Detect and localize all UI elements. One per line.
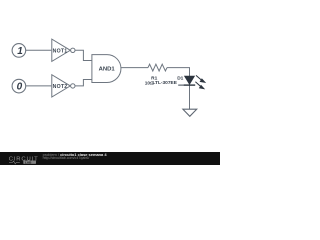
svg-text:http://circuitlab.com/c47qab6/: http://circuitlab.com/c47qab6/ <box>43 156 90 160</box>
svg-text:LAB: LAB <box>25 160 32 164</box>
svg-text:AND1: AND1 <box>99 67 116 73</box>
svg-text:0: 0 <box>17 82 23 93</box>
svg-text:1: 1 <box>17 46 23 57</box>
svg-text:D1: D1 <box>177 76 183 82</box>
svg-text:NOT2: NOT2 <box>53 84 68 90</box>
svg-text:NOT1: NOT1 <box>53 49 68 55</box>
svg-text:LTL-307EE: LTL-307EE <box>152 80 177 86</box>
